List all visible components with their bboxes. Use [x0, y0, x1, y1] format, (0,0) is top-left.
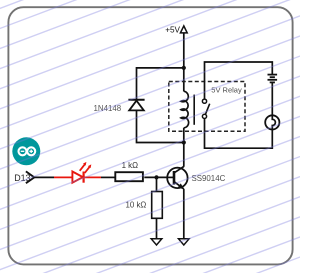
ground 2	[179, 239, 190, 245]
wire R2 to ground	[156, 218, 158, 239]
wire red LED to black	[84, 176, 101, 178]
resistor R1 1 kOhm	[115, 161, 143, 181]
svg-text:10 kΩ: 10 kΩ	[125, 201, 146, 210]
wire +5V down to node	[183, 33, 185, 68]
wire switch top to battery top	[205, 62, 273, 99]
wire battery to lamp	[271, 82, 273, 115]
wire red into LED	[54, 176, 73, 178]
pin D13 chevron	[26, 171, 34, 183]
transistor Q1 SS9014C	[167, 167, 225, 190]
svg-text:+5V: +5V	[165, 25, 180, 34]
wire node to diode top	[137, 68, 184, 100]
wire diode bottom to node	[137, 111, 184, 143]
relay K1 dashed box	[169, 82, 245, 132]
relay core bar	[193, 95, 195, 125]
wire lamp bottom to switch bottom	[205, 119, 273, 149]
node junction bottom	[182, 140, 186, 144]
wire node down to R2	[156, 177, 158, 191]
wire D13 to LED (black)	[35, 176, 54, 178]
wire coil bottom to node	[183, 128, 185, 143]
wire LED to resistor	[101, 176, 115, 178]
resistor R2 10 kOhm	[125, 192, 162, 219]
wire emitter to ground	[183, 189, 185, 239]
battery BT1	[268, 75, 278, 83]
wire node through coil region	[183, 68, 185, 92]
switch lever	[205, 104, 209, 115]
node junction base divider	[154, 175, 158, 179]
svg-text:5V Relay: 5V Relay	[211, 85, 242, 94]
relay coil L1	[181, 91, 189, 128]
power +5V symbol	[165, 25, 187, 34]
arduino icon	[12, 137, 40, 165]
diode D1 1N4148	[94, 100, 145, 113]
lamp LA1	[265, 115, 279, 129]
relay switch contacts	[202, 99, 209, 118]
wire resistor to base	[144, 176, 174, 178]
ground 1	[151, 239, 162, 245]
LED1 red	[72, 162, 91, 183]
wire node down to transistor collector	[183, 143, 185, 167]
node junction top	[182, 66, 186, 70]
